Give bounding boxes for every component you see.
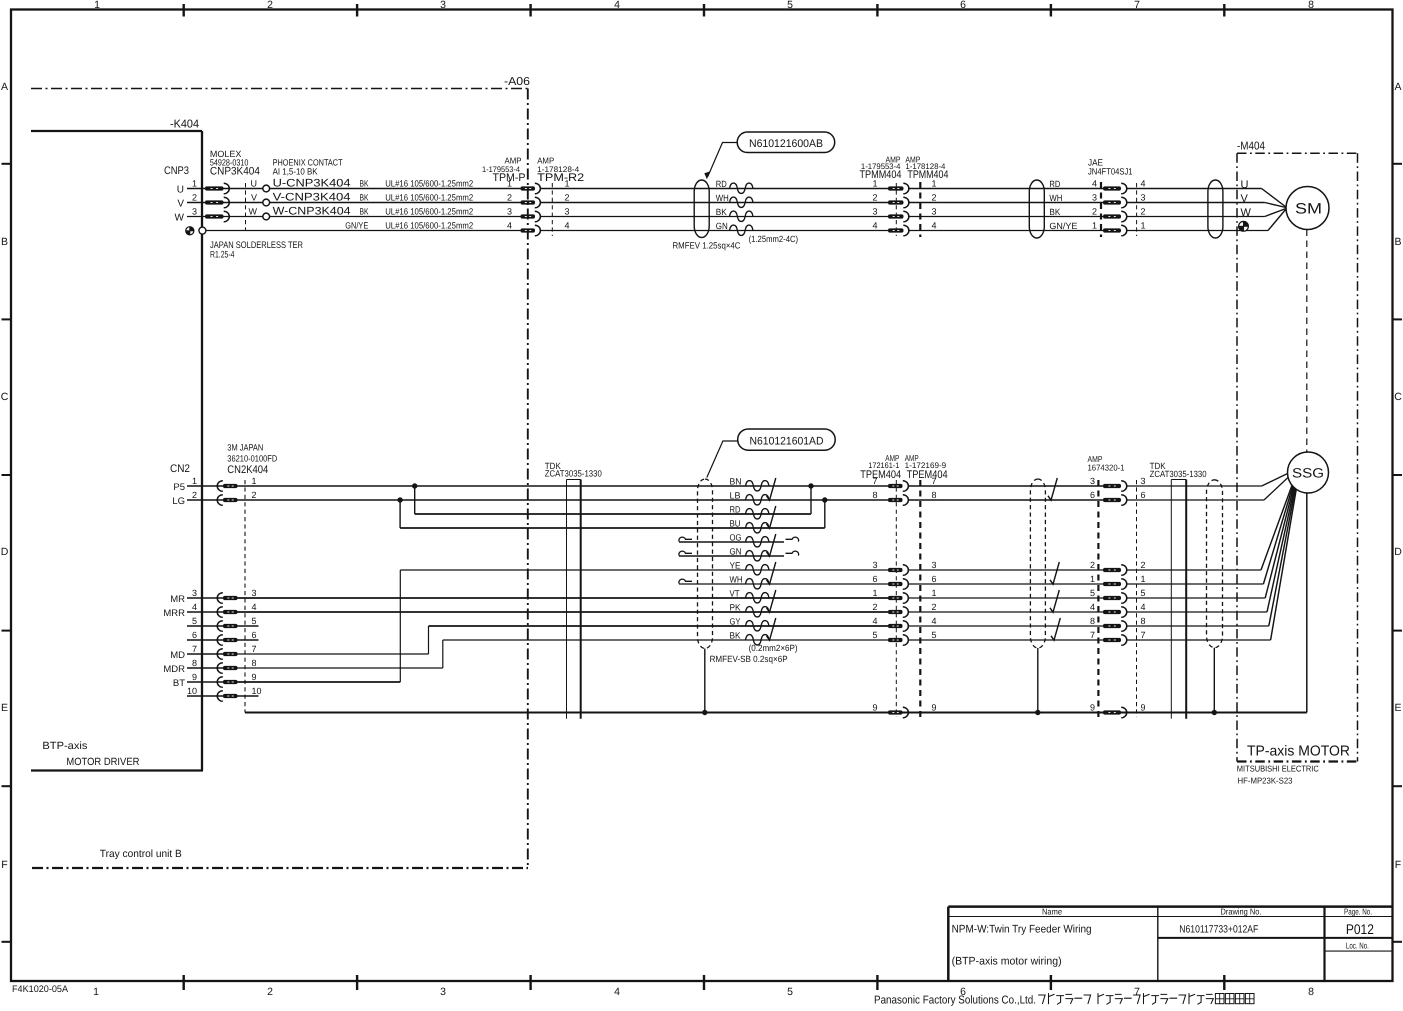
svg-text:LG: LG	[172, 496, 185, 507]
svg-text:D: D	[1394, 546, 1402, 558]
svg-text:9: 9	[1090, 703, 1095, 713]
svg-text:2: 2	[267, 986, 273, 998]
svg-text:AMP: AMP	[505, 156, 522, 166]
wire rows TPEM404 to 1674320-1	[908, 485, 1103, 487]
svg-text:8: 8	[932, 490, 937, 500]
svg-text:3: 3	[1090, 476, 1095, 486]
svg-text:N610121601AD: N610121601AD	[750, 436, 824, 448]
svg-text:8: 8	[1090, 616, 1095, 626]
svg-text:WH: WH	[730, 575, 743, 585]
motor SM circle	[1286, 187, 1329, 230]
wire U row to TPMM404	[541, 188, 889, 190]
svg-text:1: 1	[1141, 574, 1146, 584]
svg-text:Loc. No.: Loc. No.	[1346, 941, 1369, 951]
svg-text:-A06: -A06	[504, 76, 530, 88]
svg-text:Drawing No.: Drawing No.	[1221, 907, 1262, 917]
svg-text:5: 5	[192, 616, 197, 626]
svg-text:9: 9	[252, 672, 257, 682]
twisted wire squiggles 12 conductors	[746, 481, 770, 645]
svg-text:9: 9	[192, 672, 197, 682]
svg-text:R1.25-4: R1.25-4	[210, 250, 235, 261]
zone number labels top	[94, 0, 1314, 11]
svg-text:BK: BK	[730, 631, 741, 641]
svg-text:PK: PK	[730, 603, 741, 613]
CN2 housing dashed line	[244, 480, 246, 713]
svg-text:TPM-R2: TPM-R2	[537, 172, 584, 184]
svg-text:7: 7	[1141, 630, 1146, 640]
encoder shield connection wire	[1306, 493, 1308, 713]
JAE connector housing dashed (left)	[1100, 182, 1102, 237]
svg-text:BT: BT	[173, 678, 185, 689]
svg-text:7: 7	[1090, 630, 1095, 640]
svg-text:5: 5	[787, 986, 793, 998]
svg-text:1: 1	[192, 179, 197, 189]
svg-text:7: 7	[1134, 986, 1140, 998]
svg-text:3: 3	[440, 0, 446, 11]
svg-text:BTP-axis: BTP-axis	[42, 740, 87, 752]
svg-text:36210-0100FD: 36210-0100FD	[227, 454, 277, 464]
svg-text:HF-MP23K-S23: HF-MP23K-S23	[1238, 776, 1293, 786]
svg-text:P5: P5	[173, 482, 185, 493]
svg-text:3: 3	[1141, 476, 1146, 486]
svg-text:W: W	[175, 212, 185, 223]
svg-text:V: V	[1241, 193, 1249, 205]
cable oval 6 (dashed)	[1207, 480, 1223, 648]
junction dots RD branch	[412, 483, 417, 488]
dashed link motor to encoder	[1306, 230, 1308, 453]
wire U phase row	[187, 188, 521, 190]
svg-text:3: 3	[872, 560, 877, 570]
svg-text:N610121600AB: N610121600AB	[749, 138, 823, 150]
TPM-R2 housing dashed line	[551, 183, 553, 236]
earth terminal symbol at CNP3	[186, 227, 194, 235]
cable oval 4 tail to shield	[704, 649, 706, 713]
encoder fan-in wires	[1261, 474, 1296, 641]
svg-text:UL#16 105/600-1.25mm2: UL#16 105/600-1.25mm2	[385, 207, 473, 217]
svg-text:3: 3	[507, 207, 512, 217]
svg-text:3: 3	[565, 207, 570, 217]
svg-text:4: 4	[614, 986, 620, 998]
svg-text:4: 4	[932, 616, 937, 626]
svg-text:U-CNP3K404: U-CNP3K404	[273, 178, 351, 190]
svg-text:3: 3	[1092, 193, 1097, 203]
wire OG (unconnected both ends)	[679, 537, 799, 542]
svg-text:3: 3	[932, 207, 937, 217]
svg-text:4: 4	[192, 602, 197, 612]
1674320-1 housing dashed (left)	[1097, 480, 1099, 717]
enclosure -M404 motor box (dash-dot)	[1237, 153, 1358, 761]
title block outline	[948, 907, 1392, 981]
svg-text:4: 4	[507, 221, 512, 231]
enclosure -A06 / tray control boundary (dash-dot)	[31, 89, 528, 869]
svg-text:10: 10	[252, 686, 262, 696]
svg-text:8: 8	[1308, 986, 1314, 998]
svg-text:GN/YE: GN/YE	[1049, 221, 1077, 231]
svg-text:2: 2	[1092, 207, 1097, 217]
left TDK ferrite core	[567, 480, 581, 719]
1674320-1 housing dashed (right)	[1136, 480, 1138, 717]
svg-text:2: 2	[252, 490, 257, 500]
svg-text:F: F	[1, 859, 7, 871]
svg-text:10: 10	[187, 686, 197, 696]
svg-text:8: 8	[252, 658, 257, 668]
svg-text:8: 8	[872, 490, 877, 500]
svg-text:NPM-W:Twin Try Feeder Wiring: NPM-W:Twin Try Feeder Wiring	[952, 924, 1092, 936]
svg-text:CN2K404: CN2K404	[227, 464, 268, 476]
footer japanese company name glyph blocks	[1039, 994, 1255, 1005]
svg-text:F4K1020-05A: F4K1020-05A	[12, 984, 69, 995]
svg-text:4: 4	[1141, 179, 1146, 189]
svg-text:6: 6	[932, 574, 937, 584]
connector 1674320-1 pins	[1103, 481, 1127, 718]
svg-text:2: 2	[1090, 560, 1095, 570]
svg-text:SM: SM	[1295, 201, 1322, 218]
svg-text:1: 1	[932, 588, 937, 598]
wire ground row	[206, 230, 521, 232]
wire CN2-7 MD jog to GY	[238, 626, 889, 654]
svg-text:P012: P012	[1346, 921, 1374, 937]
svg-text:7: 7	[192, 644, 197, 654]
svg-text:Name: Name	[1042, 907, 1062, 917]
wire rows JAE to motor	[1127, 188, 1262, 190]
svg-text:1: 1	[507, 179, 512, 189]
callout leader line with arrowhead	[708, 143, 737, 177]
svg-text:VT: VT	[730, 589, 740, 599]
cable oval 1 (RMFEV 1.25sq)	[694, 180, 709, 238]
connector TPM-P/TPM-R2 pins	[521, 183, 541, 236]
svg-text:7: 7	[1134, 0, 1140, 11]
svg-text:-M404: -M404	[1237, 141, 1266, 153]
svg-text:4: 4	[565, 221, 570, 231]
enclosure -K404 BTP-axis motor driver box	[31, 131, 203, 771]
svg-text:RD: RD	[730, 505, 741, 515]
svg-text:6: 6	[192, 630, 197, 640]
svg-text:F: F	[1395, 859, 1401, 871]
wire CN2-1 P5 to BN	[238, 485, 889, 487]
svg-text:GY: GY	[730, 617, 741, 627]
terminal circles U V W	[263, 185, 270, 220]
svg-text:4: 4	[1090, 602, 1095, 612]
svg-text:TPMM404: TPMM404	[907, 169, 948, 181]
cable oval 3	[1208, 180, 1223, 238]
junction dot oval6-shield	[1212, 710, 1217, 715]
svg-text:9: 9	[872, 703, 877, 713]
svg-text:SSG: SSG	[1292, 466, 1324, 481]
terminal circle on driver box edge	[199, 227, 206, 234]
svg-text:BN: BN	[730, 477, 742, 487]
svg-text:MRR: MRR	[163, 608, 185, 619]
wire V phase row	[187, 202, 521, 204]
svg-text:E: E	[1, 702, 8, 714]
svg-text:YE: YE	[730, 561, 741, 571]
svg-text:4: 4	[1141, 602, 1146, 612]
svg-text:C: C	[1394, 391, 1402, 403]
svg-text:4: 4	[1092, 179, 1097, 189]
wire rows 1674320-1 to encoder	[1127, 485, 1262, 487]
connector CNP3 housing dashed line	[245, 183, 247, 231]
cable oval 4 (dashed, RMFEV-SB)	[698, 479, 713, 649]
svg-text:BK: BK	[1049, 207, 1060, 217]
svg-text:8: 8	[1308, 0, 1314, 11]
svg-text:B: B	[1394, 236, 1401, 248]
svg-text:Panasonic Factory Solutions Co: Panasonic Factory Solutions Co.,Ltd.	[874, 995, 1036, 1007]
svg-text:WH: WH	[716, 193, 729, 203]
svg-text:BK: BK	[716, 207, 727, 217]
svg-text:(BTP-axis motor wiring): (BTP-axis motor wiring)	[952, 956, 1062, 968]
svg-text:JN4FT04SJ1: JN4FT04SJ1	[1088, 167, 1133, 177]
svg-text:D: D	[1, 546, 9, 558]
cable oval 5 (dashed)	[1030, 479, 1045, 648]
svg-text:U: U	[251, 179, 258, 189]
svg-text:6: 6	[1141, 490, 1146, 500]
junction dot oval5-shield	[1035, 710, 1040, 715]
svg-text:2: 2	[192, 193, 197, 203]
TPEM404 mating housing dashed lines	[895, 480, 897, 717]
svg-text:MOTOR DRIVER: MOTOR DRIVER	[66, 756, 139, 768]
svg-text:BK: BK	[360, 193, 369, 203]
svg-text:1: 1	[94, 0, 100, 11]
svg-text:1674320-1: 1674320-1	[1088, 463, 1125, 473]
wire WH (cut left end)	[679, 579, 888, 584]
svg-text:3: 3	[192, 588, 197, 598]
wire CN2-2 LG to LB	[238, 499, 889, 501]
stub pin 6	[238, 639, 259, 641]
svg-text:ZCAT3035-1330: ZCAT3035-1330	[545, 469, 602, 479]
svg-text:CNP3: CNP3	[164, 165, 189, 177]
svg-text:5: 5	[1090, 588, 1095, 598]
wire CN2-9 BT jog to YE	[238, 570, 889, 682]
branch P5 to RD wire	[415, 486, 811, 514]
svg-text:2: 2	[192, 490, 197, 500]
svg-text:3M JAPAN: 3M JAPAN	[227, 443, 263, 453]
svg-text:Tray control unit B: Tray control unit B	[100, 848, 182, 860]
svg-text:WH: WH	[1049, 193, 1062, 203]
svg-text:V: V	[177, 198, 184, 209]
svg-text:W: W	[249, 207, 258, 217]
svg-text:7: 7	[252, 644, 257, 654]
svg-text:U: U	[177, 184, 184, 195]
svg-text:8: 8	[1141, 616, 1146, 626]
svg-text:6: 6	[872, 574, 877, 584]
svg-text:2: 2	[932, 193, 937, 203]
svg-text:RD: RD	[716, 179, 727, 189]
shield drain wire	[245, 712, 1307, 714]
svg-text:W: W	[1241, 207, 1252, 219]
svg-text:1: 1	[1092, 221, 1097, 231]
svg-text:CNP3K404: CNP3K404	[210, 166, 260, 178]
svg-text:2: 2	[872, 193, 877, 203]
svg-text:3: 3	[932, 560, 937, 570]
svg-text:4: 4	[872, 616, 877, 626]
TPMM404 mating housing dashed lines	[895, 183, 897, 236]
svg-text:AMP: AMP	[537, 156, 554, 166]
svg-text:-K404: -K404	[170, 119, 200, 131]
svg-text:1: 1	[192, 476, 197, 486]
cable oval 2	[1029, 180, 1044, 238]
svg-text:TPEM404: TPEM404	[860, 469, 901, 481]
svg-text:2: 2	[932, 602, 937, 612]
junction dot oval4-shield	[702, 710, 707, 715]
stub pin 5	[238, 625, 259, 627]
svg-text:RMFEV 1.25sq×4C: RMFEV 1.25sq×4C	[673, 241, 741, 251]
svg-text:3: 3	[872, 207, 877, 217]
stub pin 10	[238, 695, 259, 697]
wire CN2-4 MRR to PK	[238, 611, 889, 613]
svg-text:8: 8	[192, 658, 197, 668]
connector CNP3 pins (bars and sockets)	[205, 183, 229, 222]
svg-text:7: 7	[872, 476, 877, 486]
wire V row to TPMM404	[541, 202, 889, 204]
svg-text:1: 1	[1141, 221, 1146, 231]
svg-text:TPEM404: TPEM404	[907, 469, 948, 481]
svg-text:OG: OG	[730, 533, 742, 543]
svg-text:UL#16 105/600-1.25mm2: UL#16 105/600-1.25mm2	[385, 221, 473, 231]
cable oval 6 tail to shield	[1213, 648, 1215, 713]
svg-text:UL#16 105/600-1.25mm2: UL#16 105/600-1.25mm2	[385, 179, 473, 189]
svg-text:4: 4	[872, 221, 877, 231]
callout N610121601AD	[738, 429, 836, 450]
CN2 pin stubs and pins	[187, 481, 238, 702]
twisted pair slashes at oval 5	[1048, 478, 1060, 640]
svg-text:ZCAT3035-1330: ZCAT3035-1330	[1150, 469, 1207, 479]
svg-text:Page. No.: Page. No.	[1344, 907, 1372, 917]
svg-text:2: 2	[872, 602, 877, 612]
svg-text:TP-axis MOTOR: TP-axis MOTOR	[1247, 744, 1350, 760]
svg-text:3: 3	[192, 207, 197, 217]
svg-text:2: 2	[267, 0, 273, 11]
svg-text:5: 5	[787, 0, 793, 11]
wire W row to TPMM404	[541, 216, 889, 218]
svg-text:C: C	[1, 391, 9, 403]
svg-text:RD: RD	[1049, 179, 1060, 189]
connector TPEM404 pins	[888, 481, 908, 718]
svg-text:1: 1	[932, 179, 937, 189]
wire W phase row	[187, 216, 521, 218]
svg-text:3: 3	[252, 588, 257, 598]
zone number labels bottom	[93, 986, 1314, 998]
svg-text:1: 1	[1090, 574, 1095, 584]
svg-text:A: A	[1, 81, 8, 93]
svg-text:4: 4	[614, 0, 620, 11]
svg-text:2: 2	[1141, 560, 1146, 570]
svg-text:2: 2	[565, 193, 570, 203]
svg-text:N610117733+012AF: N610117733+012AF	[1179, 924, 1258, 936]
svg-text:2: 2	[1141, 207, 1146, 217]
svg-text:9: 9	[1141, 703, 1146, 713]
earth symbol in motor box	[1239, 221, 1249, 231]
svg-text:E: E	[1394, 702, 1401, 714]
wire GN (unconnected both ends)	[679, 551, 799, 556]
svg-text:9: 9	[932, 703, 937, 713]
right TDK ferrite core	[1171, 480, 1186, 719]
svg-text:(1.25mm2-4C): (1.25mm2-4C)	[749, 234, 799, 244]
svg-text:5: 5	[1141, 588, 1146, 598]
svg-text:A: A	[1394, 81, 1401, 93]
connector JAE JN4FT04SJ1 pins	[1103, 183, 1127, 236]
svg-text:CN2: CN2	[170, 463, 190, 475]
cable oval 5 tail to shield	[1037, 648, 1039, 713]
twisted pair slashes after squiggles	[767, 478, 776, 640]
svg-text:5: 5	[252, 616, 257, 626]
svg-text:MITSUBISHI ELECTRIC: MITSUBISHI ELECTRIC	[1237, 764, 1319, 774]
svg-text:5: 5	[932, 630, 937, 640]
svg-text:1: 1	[93, 986, 99, 998]
svg-text:AI 1,5-10 BK: AI 1,5-10 BK	[273, 167, 318, 177]
svg-text:3: 3	[440, 986, 446, 998]
svg-text:UL#16 105/600-1.25mm2: UL#16 105/600-1.25mm2	[385, 193, 473, 203]
svg-text:BK: BK	[360, 179, 369, 189]
svg-text:1: 1	[565, 179, 570, 189]
svg-text:1: 1	[252, 476, 257, 486]
svg-text:1: 1	[872, 179, 877, 189]
svg-text:MD: MD	[170, 650, 185, 661]
svg-text:GN: GN	[716, 221, 728, 231]
svg-text:GN/YE: GN/YE	[345, 221, 368, 231]
svg-text:TPMM404: TPMM404	[860, 169, 902, 181]
svg-text:RMFEV-SB 0.2sq×6P: RMFEV-SB 0.2sq×6P	[710, 654, 788, 664]
svg-text:7: 7	[932, 476, 937, 486]
connector TPMM404 pins	[888, 183, 909, 236]
svg-text:MR: MR	[170, 594, 185, 605]
wire G row to TPMM404	[541, 230, 889, 232]
svg-text:V: V	[251, 193, 257, 203]
encoder SSG circle	[1288, 452, 1329, 493]
svg-text:MDR: MDR	[163, 664, 185, 675]
branch LG to BU wire	[400, 500, 825, 528]
svg-text:4: 4	[252, 602, 257, 612]
svg-text:6: 6	[1090, 490, 1095, 500]
svg-text:3: 3	[1141, 193, 1146, 203]
svg-text:V-CNP3K404: V-CNP3K404	[273, 192, 351, 204]
callout N610121600AB	[737, 132, 835, 153]
wire CN2-3 MR to VT	[238, 597, 889, 599]
JAE housing dashed (right)	[1136, 183, 1138, 236]
svg-text:5: 5	[872, 630, 877, 640]
svg-text:GN: GN	[730, 547, 742, 557]
svg-text:LB: LB	[730, 491, 741, 501]
svg-text:1: 1	[872, 588, 877, 598]
svg-text:6: 6	[252, 630, 257, 640]
svg-text:B: B	[1, 236, 8, 248]
svg-text:(0.2mm2×6P): (0.2mm2×6P)	[749, 643, 798, 653]
junction dots BU branch	[397, 497, 402, 502]
twisted wire squiggles top cable	[730, 183, 754, 235]
svg-text:BU: BU	[730, 519, 741, 529]
zone letter labels left	[1, 81, 9, 871]
svg-text:W-CNP3K404: W-CNP3K404	[273, 206, 351, 218]
callout leader line 2	[707, 441, 738, 478]
motor lead fan-in wires	[1262, 189, 1286, 231]
svg-text:4: 4	[932, 221, 937, 231]
zone letter labels right	[1394, 81, 1402, 871]
wire CN2-8 MDR jog to BK	[238, 640, 889, 668]
svg-text:6: 6	[960, 0, 966, 11]
svg-text:U: U	[1241, 179, 1249, 191]
svg-text:BK: BK	[360, 207, 369, 217]
svg-text:2: 2	[507, 193, 512, 203]
wire rows TPMM404 to JAE	[908, 188, 1103, 190]
